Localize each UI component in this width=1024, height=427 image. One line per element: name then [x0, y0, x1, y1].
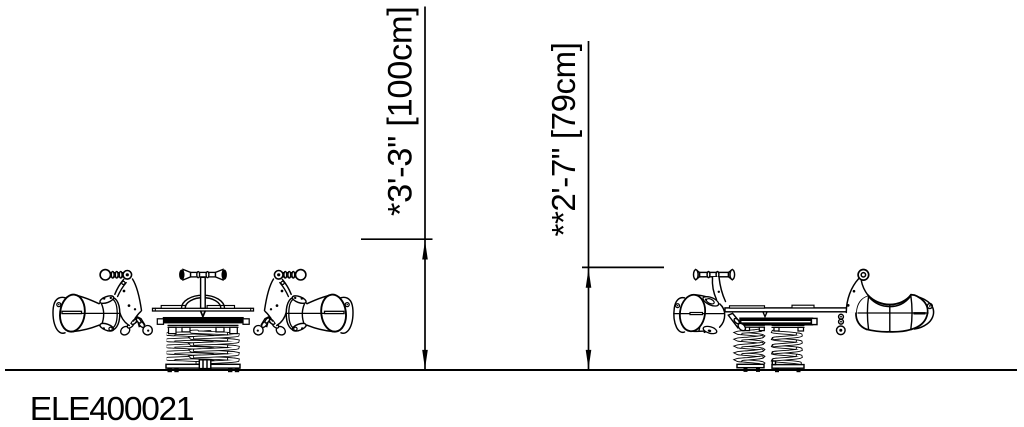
center post	[201, 277, 206, 308]
coil spring front left	[169, 334, 214, 338]
saddle seams	[867, 296, 868, 330]
seat top pad	[99, 294, 115, 305]
drum left cap	[674, 298, 685, 333]
V mark beam side	[763, 312, 767, 317]
handlebar bracket side view	[712, 277, 725, 302]
seat top pad	[291, 294, 307, 305]
seat back rim	[108, 297, 120, 331]
footpeg strut side view	[728, 313, 747, 332]
svg-text:*3'-3" [100cm]: *3'-3" [100cm]	[382, 6, 420, 216]
svg-text:**2'-7" [79cm]: **2'-7" [79cm]	[545, 43, 582, 237]
svg-text:ELE400021: ELE400021	[30, 391, 193, 427]
seat waist seam	[102, 304, 104, 325]
T handlebar front	[183, 269, 223, 280]
dimension: overall height 3ft3in / 100cm	[361, 7, 433, 370]
seat plank bar side view	[740, 318, 813, 325]
saddle mid seam + slot	[858, 312, 928, 314]
seat support bracket	[115, 279, 142, 325]
seat back rim	[286, 297, 298, 331]
drum collar top	[703, 297, 719, 306]
saddle bracket arm	[846, 270, 868, 313]
saddle right cap	[915, 297, 934, 329]
seat bottom pad	[99, 322, 115, 333]
base plate side front	[737, 364, 764, 367]
footpeg B	[136, 316, 153, 335]
seat front cap	[53, 297, 67, 333]
bracket holes	[123, 290, 137, 311]
base feet	[168, 368, 240, 372]
coil spring side front	[738, 333, 763, 337]
saddle seat side view	[856, 295, 934, 332]
seat front cap	[340, 297, 354, 333]
handlebar side view	[694, 270, 735, 280]
seat plank bar (black) front view	[164, 318, 244, 323]
handlebar end caps	[180, 270, 184, 279]
seat support bracket	[265, 279, 292, 325]
footpeg A	[268, 316, 287, 336]
bracket holes	[270, 290, 284, 311]
spring base plate front view	[166, 364, 240, 368]
drum body side view	[693, 295, 725, 335]
footpeg end-on circles	[837, 314, 846, 334]
seat handlebar ball grip	[100, 270, 132, 280]
center dome arch	[182, 295, 225, 308]
beam top tabs	[161, 306, 234, 309]
seat body	[293, 295, 334, 332]
beam tabs side view	[730, 305, 815, 308]
saddle outline	[856, 295, 868, 329]
arrowheads dim 1	[422, 241, 428, 260]
coil spring front right	[191, 331, 234, 334]
coil spring side rear	[773, 331, 800, 335]
FRONT VIEW spring seesaw	[153, 269, 254, 372]
bracket leg below beam	[277, 311, 287, 325]
seat body	[72, 295, 113, 332]
center piston	[199, 360, 211, 369]
seesaw beam front view	[153, 306, 254, 312]
seat drum face	[58, 293, 87, 333]
seat drum face	[319, 293, 348, 333]
arrowheads dim 2	[586, 269, 592, 288]
seat waist seam	[302, 304, 304, 325]
drum face ellipse	[678, 293, 708, 333]
SIDE VIEW spring seesaw	[674, 270, 934, 373]
spring mount plates side view	[743, 325, 804, 331]
V mark under beam	[201, 311, 205, 316]
seat bottom pad	[291, 322, 307, 333]
saddle dip	[868, 295, 911, 305]
base feet side view	[744, 368, 801, 373]
base plate side rear	[772, 365, 804, 369]
seat mid seam + slot	[287, 312, 344, 314]
drum mid seam + slot	[674, 313, 725, 315]
ground line	[5, 369, 1017, 371]
drum mid seam arc	[699, 296, 701, 331]
seat handlebar ball grip	[274, 270, 306, 280]
drum bottom pad	[702, 325, 717, 335]
footpeg A	[119, 316, 138, 336]
footpeg B	[254, 316, 271, 335]
bracket leg below beam	[120, 311, 130, 325]
seat mid seam + slot	[62, 312, 119, 314]
bracket ring	[858, 270, 869, 281]
right seat group front view (mirror)	[254, 270, 353, 337]
spring top mount plate	[168, 325, 238, 333]
left seat group front view	[53, 270, 152, 337]
beam side view	[725, 305, 855, 312]
plank end caps	[157, 319, 163, 325]
dimension: seat height 2ft7in / 79cm	[582, 41, 664, 369]
